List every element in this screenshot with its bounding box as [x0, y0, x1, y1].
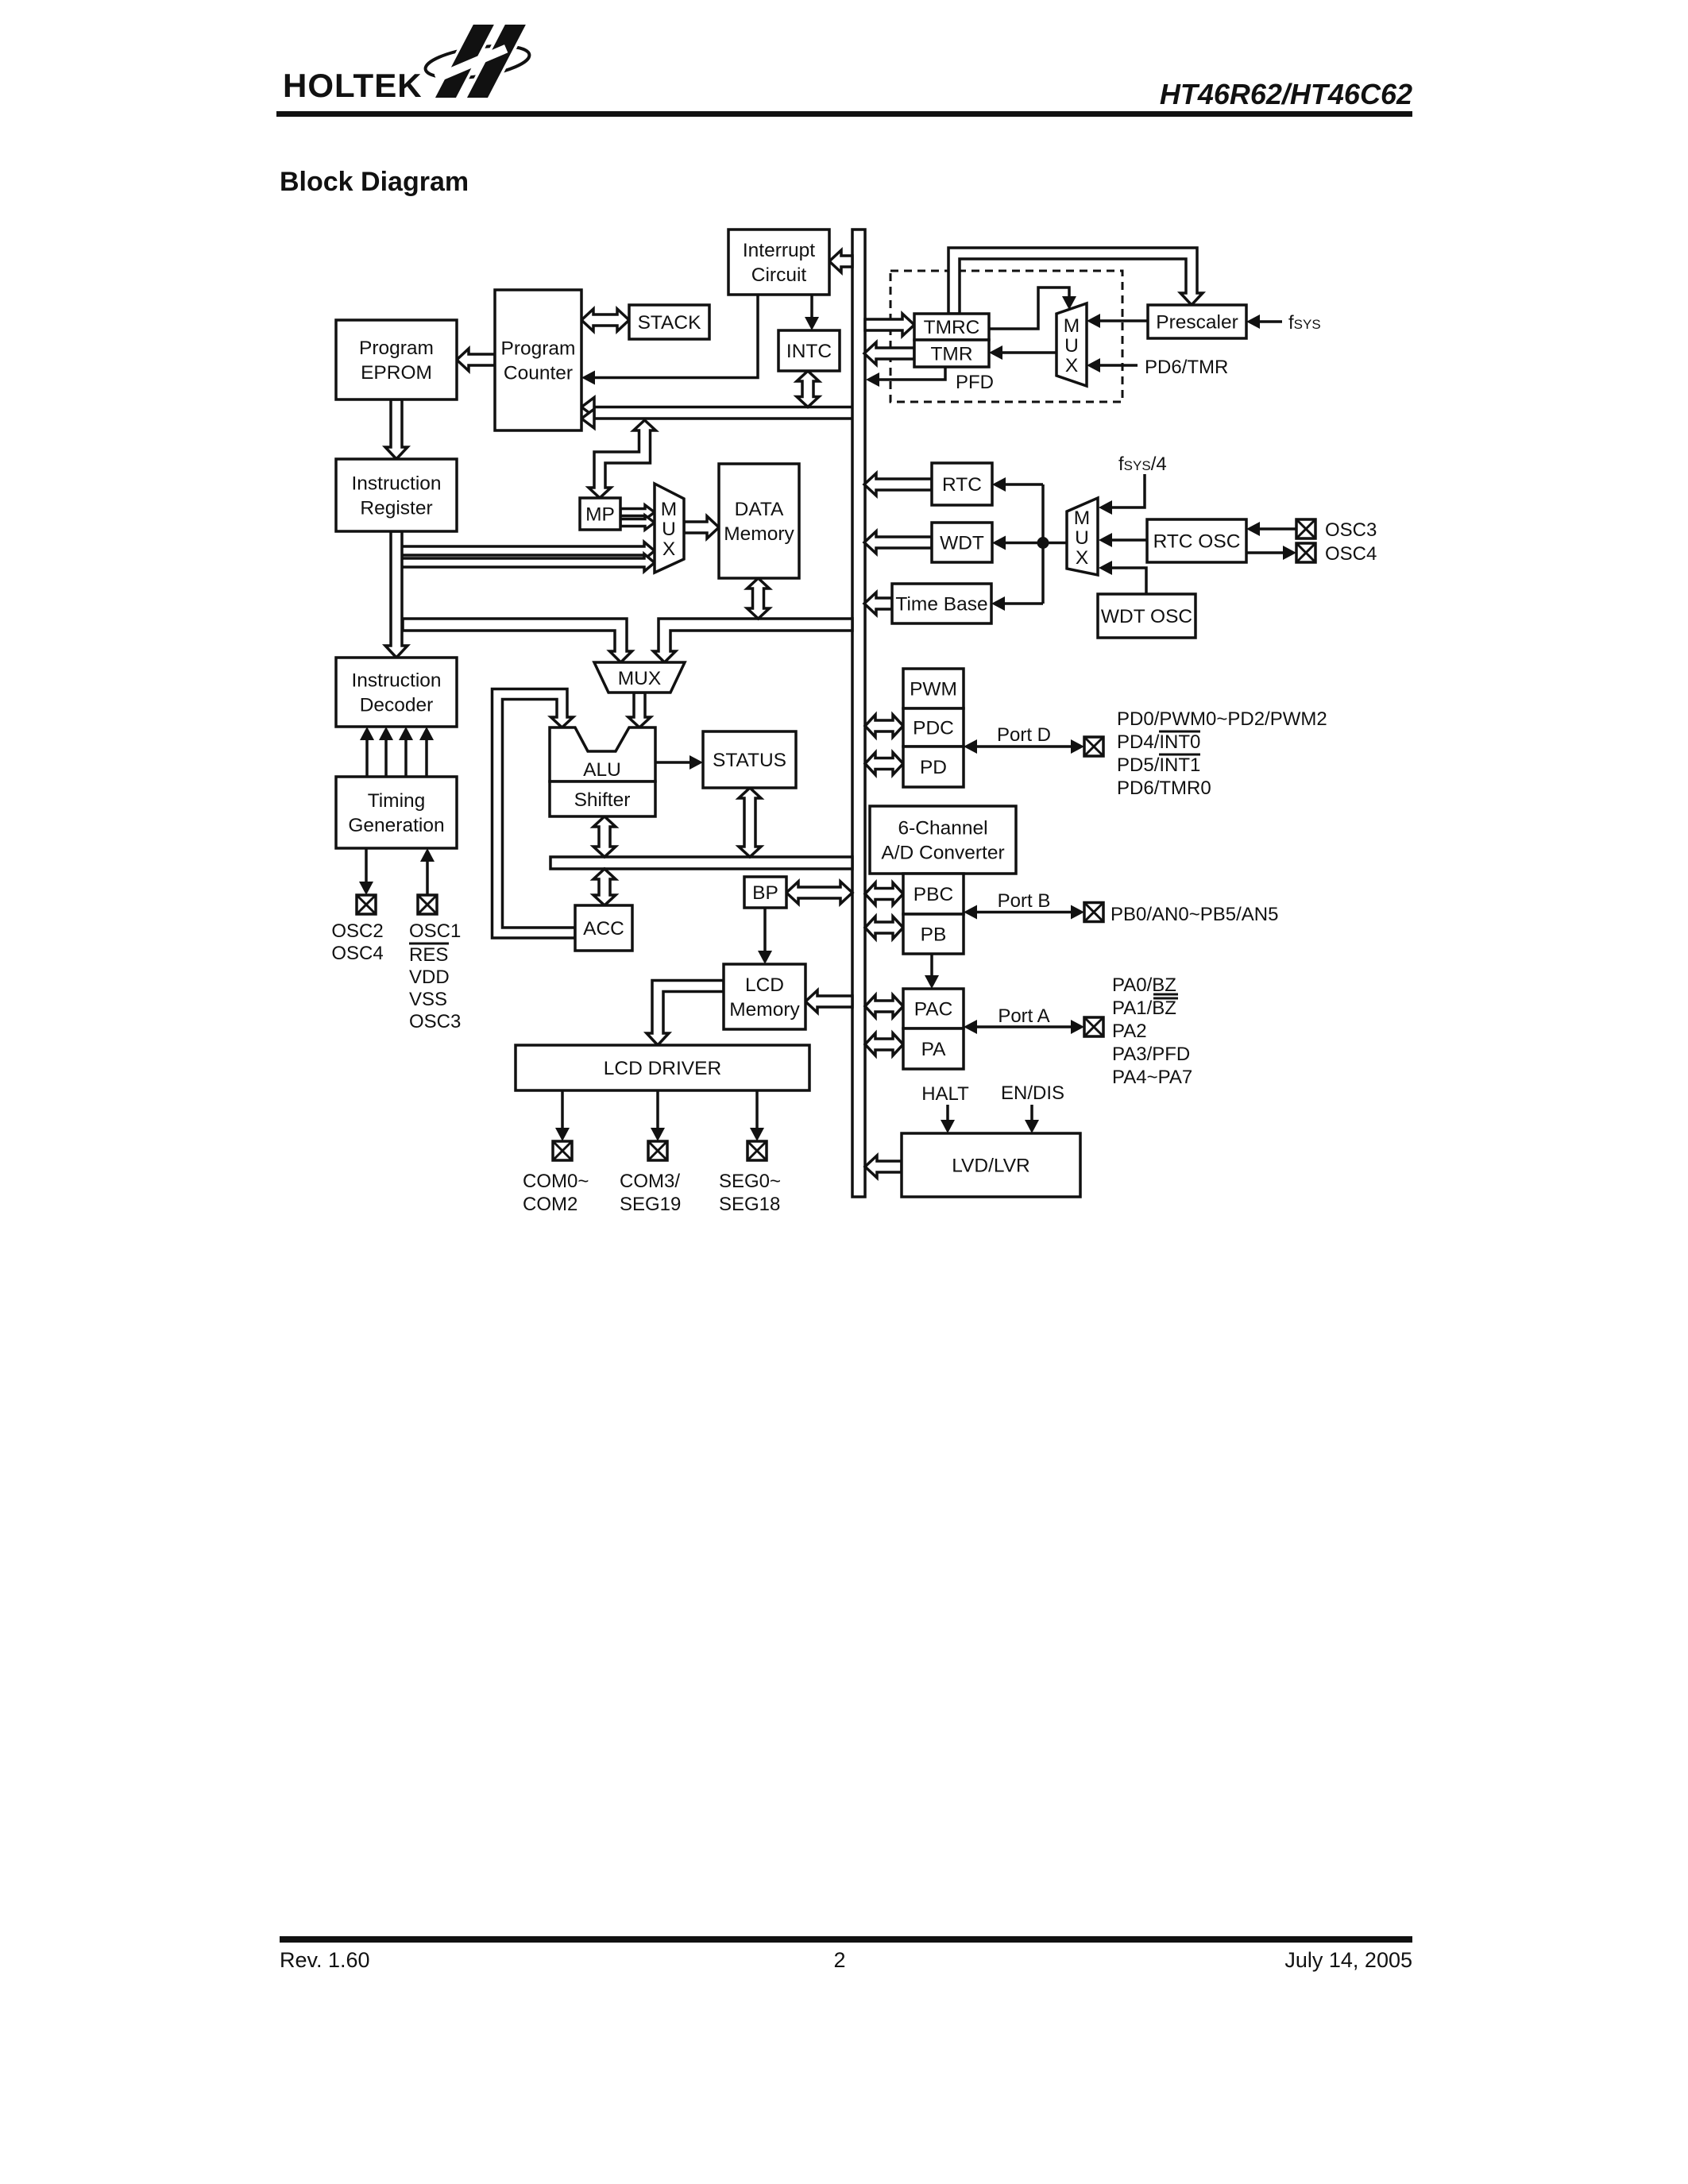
svg-text:SEG18: SEG18 [719, 1194, 780, 1215]
svg-text:RTC: RTC [942, 474, 982, 496]
svg-text:EPROM: EPROM [361, 362, 432, 384]
svg-text:X: X [1076, 547, 1088, 569]
svg-text:PD4/INT0: PD4/INT0 [1117, 731, 1200, 753]
svg-text:OSC4: OSC4 [331, 943, 383, 964]
svg-text:PA: PA [921, 1039, 947, 1060]
svg-text:OSC3: OSC3 [409, 1011, 461, 1032]
svg-text:ALU: ALU [583, 759, 621, 781]
svg-text:M: M [1064, 315, 1080, 337]
svg-text:M: M [1074, 507, 1090, 529]
svg-text:Program: Program [501, 338, 576, 360]
svg-text:OSC4: OSC4 [1325, 543, 1377, 565]
svg-text:PWM: PWM [910, 679, 957, 700]
svg-text:TMRC: TMRC [924, 317, 980, 338]
svg-text:U: U [1064, 335, 1079, 357]
svg-text:VSS: VSS [409, 989, 447, 1010]
svg-text:U: U [1075, 527, 1089, 549]
svg-text:WDT: WDT [940, 533, 984, 554]
svg-text:Port A: Port A [998, 1005, 1049, 1027]
svg-text:MP: MP [585, 504, 615, 526]
svg-text:PA2: PA2 [1112, 1021, 1147, 1042]
svg-text:Port B: Port B [998, 890, 1051, 912]
svg-text:PA0/BZ: PA0/BZ [1112, 974, 1176, 996]
svg-text:INTC: INTC [786, 341, 832, 362]
svg-text:Instruction: Instruction [351, 473, 441, 495]
svg-text:PD0/PWM0~PD2/PWM2: PD0/PWM0~PD2/PWM2 [1117, 708, 1327, 730]
svg-text:WDT OSC: WDT OSC [1101, 606, 1192, 627]
svg-text:Shifter: Shifter [574, 789, 631, 811]
svg-text:PA3/PFD: PA3/PFD [1112, 1044, 1190, 1065]
svg-text:July 14, 2005: July 14, 2005 [1284, 1948, 1412, 1972]
svg-text:PFD: PFD [956, 372, 994, 393]
svg-text:2: 2 [833, 1948, 845, 1972]
svg-text:6-Channel: 6-Channel [898, 818, 987, 839]
svg-text:HALT: HALT [921, 1083, 969, 1105]
svg-text:ACC: ACC [583, 918, 624, 940]
svg-text:COM2: COM2 [523, 1194, 577, 1215]
svg-text:PBC: PBC [914, 884, 953, 905]
svg-text:Memory: Memory [724, 523, 794, 545]
svg-text:Counter: Counter [504, 363, 573, 384]
svg-text:DATA: DATA [735, 499, 784, 520]
svg-text:OSC3: OSC3 [1325, 519, 1377, 541]
svg-text:Instruction: Instruction [351, 670, 441, 692]
svg-text:PA1/BZ: PA1/BZ [1112, 997, 1176, 1019]
svg-text:Rev. 1.60: Rev. 1.60 [280, 1948, 370, 1972]
svg-text:PB0/AN0~PB5/AN5: PB0/AN0~PB5/AN5 [1111, 904, 1278, 925]
svg-text:HT46R62/HT46C62: HT46R62/HT46C62 [1160, 78, 1412, 110]
svg-text:Decoder: Decoder [360, 695, 434, 716]
svg-text:HOLTEK: HOLTEK [283, 67, 423, 104]
svg-text:LVD/LVR: LVD/LVR [952, 1156, 1030, 1177]
svg-text:Port D: Port D [997, 724, 1051, 746]
svg-text:PA4~PA7: PA4~PA7 [1112, 1067, 1192, 1088]
svg-text:OSC2: OSC2 [331, 920, 383, 942]
svg-text:PD5/INT1: PD5/INT1 [1117, 754, 1200, 776]
svg-text:PD: PD [920, 757, 947, 778]
svg-text:SEG0~: SEG0~ [719, 1171, 781, 1192]
svg-text:PD6/TMR: PD6/TMR [1145, 357, 1228, 378]
svg-text:MUX: MUX [618, 668, 661, 689]
svg-text:Program: Program [359, 338, 434, 359]
svg-text:PAC: PAC [914, 999, 953, 1021]
svg-text:PDC: PDC [913, 718, 954, 739]
svg-text:M: M [661, 499, 677, 520]
svg-text:EN/DIS: EN/DIS [1001, 1082, 1064, 1104]
svg-text:Register: Register [360, 498, 432, 519]
svg-text:U: U [662, 519, 676, 540]
svg-text:TMR: TMR [930, 344, 972, 365]
svg-text:LCD: LCD [745, 974, 784, 996]
svg-text:COM0~: COM0~ [523, 1171, 589, 1192]
svg-text:Generation: Generation [348, 815, 444, 836]
svg-text:SEG19: SEG19 [620, 1194, 681, 1215]
svg-text:COM3/: COM3/ [620, 1171, 680, 1192]
svg-text:Memory: Memory [729, 999, 800, 1021]
svg-text:VDD: VDD [409, 967, 450, 988]
svg-text:PB: PB [921, 924, 947, 946]
svg-text:Interrupt: Interrupt [743, 240, 815, 261]
svg-text:Time Base: Time Base [895, 594, 987, 615]
svg-text:STATUS: STATUS [713, 750, 786, 771]
svg-text:X: X [662, 538, 675, 560]
svg-text:RES: RES [409, 944, 448, 966]
svg-text:BP: BP [752, 882, 778, 904]
svg-text:Timing: Timing [368, 790, 426, 812]
svg-text:STACK: STACK [638, 312, 702, 334]
svg-text:Prescaler: Prescaler [1156, 312, 1238, 334]
svg-text:A/D Converter: A/D Converter [881, 843, 1004, 864]
svg-text:OSC1: OSC1 [409, 920, 461, 942]
svg-text:Circuit: Circuit [751, 264, 807, 286]
svg-text:PD6/TMR0: PD6/TMR0 [1117, 778, 1211, 799]
svg-text:X: X [1065, 355, 1078, 376]
svg-text:RTC OSC: RTC OSC [1153, 531, 1241, 553]
svg-text:Block Diagram: Block Diagram [280, 167, 469, 197]
svg-text:LCD DRIVER: LCD DRIVER [604, 1058, 721, 1079]
